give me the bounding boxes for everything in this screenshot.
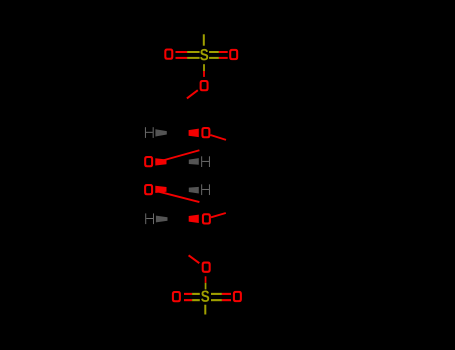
atom O double-bonded left of S1 [164,49,173,60]
atom O3 on C4 row3 left [144,184,153,195]
atom S2 bottom mesylate sulfur [201,290,209,301]
bond Oester2-S2 red half [205,276,207,283]
double bond S1=O right olive half upper line [209,51,219,53]
double bond S2=O left olive half lower line [192,299,200,301]
double bond S2=O right red half lower line [222,299,231,301]
double bond S2=O right olive half lower line [211,299,222,301]
bond S1-Oester1 red half [203,71,205,77]
double bond S2=O left red half lower line [184,299,192,301]
atom O double-bonded left of S2 [172,291,181,302]
bond S1-Oester1 olive half [203,64,205,71]
double bond S1=O right olive half lower line [209,57,219,59]
double bond S1=O left olive half upper line [187,51,200,53]
wedge bond C2-O1 red half [189,129,199,138]
double bond S2=O right red half upper line [222,293,231,295]
bond O3-acetal carbon long red half [156,191,200,202]
atom O4 on C5 row4 right [202,213,211,224]
bond Oester1-C1 red half [187,90,198,98]
atom O double-bonded right of S2 [233,291,242,302]
bond Oester2-S2 olive half [205,283,207,290]
atom O2 on C3 row2 left [144,156,153,167]
double bond S1=O right red half lower line [219,57,228,59]
bond O2-acetal carbon long red half [156,150,200,162]
atom H on C4 row3 right [201,184,210,195]
wedge bond C4-H gray half [189,187,199,194]
double bond S2=O right olive half upper line [211,293,222,295]
atom H on C3 row2 right [201,156,210,167]
atom H on C2 row1 left [145,127,154,138]
atom O double-bonded right of S1 [229,49,238,60]
wedge bond C4-O3 red half [155,186,166,193]
wedge bond C5-H gray half [156,216,168,223]
bond S2-CH3 methyl stub below S2 [204,305,206,315]
bond O4-acetal carbon red half [211,213,226,217]
atom H on C5 row4 left [145,213,154,224]
double bond S1=O left olive half lower line [187,57,200,59]
wedge bond C3-O2 red half [155,158,166,165]
wedge bond C2-H gray half [155,129,166,136]
atom S1 top mesylate sulfur [200,49,208,60]
atom O ester bottom (mesylate O) [202,262,211,273]
double bond S1=O left red half upper line [176,51,188,53]
bond C6-Oester2 red half [189,255,200,263]
atom O ester top (mesylate O) [200,80,209,91]
atom O1 on C2 row1 right [201,127,210,138]
double bond S1=O left red half lower line [176,57,188,59]
bond O1-acetal carbon red half [211,135,227,140]
double bond S2=O left red half upper line [184,293,192,295]
bond S1-CH3 methyl stub above S1 [203,34,205,45]
wedge bond C5-O4 red half [189,215,199,223]
wedge bond C3-H gray half [189,158,199,165]
double bond S2=O left olive half upper line [192,293,200,295]
double bond S1=O right red half upper line [219,51,228,53]
